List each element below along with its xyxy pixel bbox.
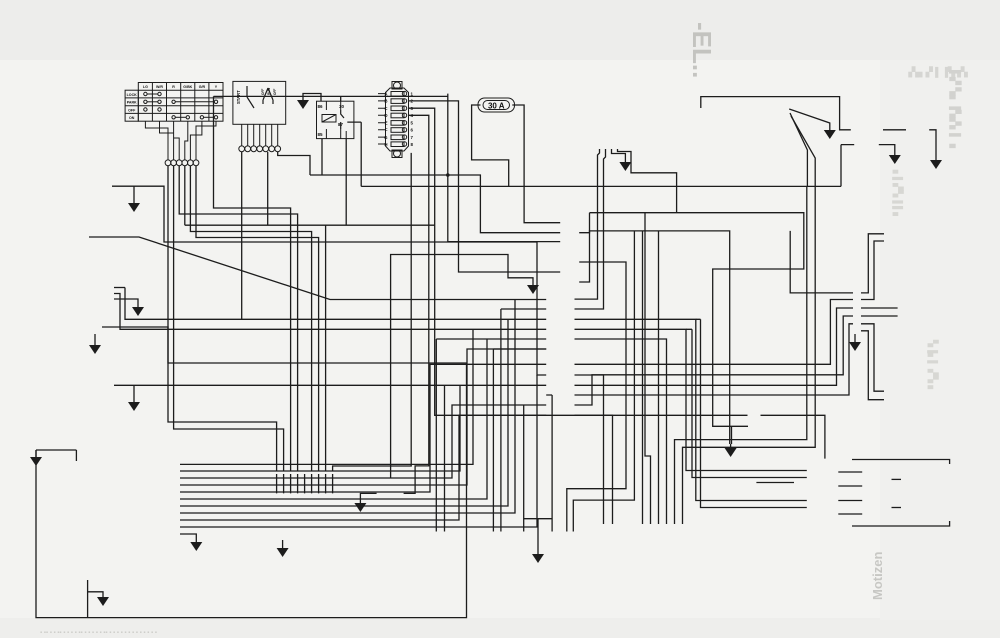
svg-text:▚▐▖▌ ▞▚ ▖: ▚▐▖▌ ▞▚ ▖ — [927, 339, 939, 392]
wire tail pin2 right — [861, 241, 884, 300]
ground tank — [619, 158, 631, 171]
wire Y loop gnd — [35, 450, 37, 453]
wire battery minus diag2 — [790, 113, 807, 186]
wire y230.9 long — [579, 231, 730, 444]
wire reg pin6 riser — [642, 231, 644, 524]
wire relay BN down — [345, 139, 347, 226]
ground solenoid — [889, 151, 901, 164]
wire key t1 — [168, 166, 277, 471]
svg-text:R: R — [172, 85, 175, 89]
wire tank gnd — [612, 149, 626, 158]
wire headlamp V — [114, 294, 546, 330]
svg-text:30: 30 — [339, 104, 345, 109]
svg-text:87: 87 — [338, 122, 344, 127]
svg-text:OFF: OFF — [128, 108, 136, 112]
fuse 25 — [478, 98, 515, 112]
wire solenoid to M — [883, 129, 906, 131]
wire gen loop to plugs top — [852, 460, 950, 465]
wire cluster t4 — [180, 349, 546, 485]
wire tail pin1 right to 34 — [861, 234, 884, 293]
svg-text:PARK: PARK — [127, 101, 137, 105]
ground relay86 — [297, 96, 309, 109]
wire 30pin4 LB — [404, 115, 429, 493]
wire cluster t9 — [180, 415, 546, 520]
wire strip1B W/G right — [575, 300, 854, 365]
wire key t5 — [190, 166, 311, 471]
wire key t4 — [184, 166, 186, 225]
key contacts — [144, 92, 218, 119]
wire bulb2 gnd — [133, 186, 135, 199]
wire 30 B/BK down — [333, 153, 412, 471]
key table to terminals wires — [145, 121, 216, 160]
wire A conn to loop — [761, 415, 825, 458]
wire cluster t6 — [180, 339, 487, 499]
wire bulb3 V/BK — [114, 384, 546, 386]
8 pin rows — [391, 91, 407, 146]
wire coil27 tip — [892, 507, 902, 509]
ground speedo — [97, 593, 109, 606]
ground bulb3 — [128, 398, 140, 411]
svg-text:OFF: OFF — [273, 89, 277, 95]
wire bulb14 L — [493, 349, 546, 532]
wire relay30 pin stub — [340, 96, 342, 101]
wire battery minus diag3 — [683, 116, 816, 524]
svg-text:LOCK: LOCK — [127, 93, 138, 97]
svg-text:LG: LG — [143, 85, 148, 89]
wire 30pin3 BN — [408, 108, 748, 415]
wire strip2D to 23b — [575, 319, 807, 500]
wire solenoid coil drop — [841, 145, 854, 187]
svg-text:W/R: W/R — [156, 85, 163, 89]
wire horn Y 1 — [575, 375, 604, 524]
wire y339 strip2E left — [436, 338, 546, 340]
wire cluster t10 — [180, 375, 537, 527]
wire strip2C to 23a — [575, 329, 807, 470]
wire strip4A right riser — [579, 213, 589, 233]
wire bulb14 R — [501, 309, 546, 532]
wire tail pin6 to 35 — [861, 331, 884, 400]
wire bulb12 L riser — [435, 339, 437, 532]
wire cluster gnd — [180, 534, 196, 538]
wire cluster t3 — [180, 405, 546, 478]
wire cluster t5 — [180, 364, 546, 492]
wire BK y212 — [590, 213, 804, 427]
wire headlamp gnd — [114, 299, 138, 303]
wire tail pin4 right — [861, 315, 898, 317]
wire R main: battery+ to solenoid top — [701, 97, 851, 130]
wire main R/B y186 — [361, 185, 841, 187]
wire bulb2 W/G — [112, 186, 546, 375]
svg-text:▪ ▪▪ ▪ ▪ ▪▪ ▪ ▪ ▪ ▪ ▪▪ ▪ ▪ ▪ ▪: ▪ ▪▪ ▪ ▪ ▪▪ ▪ ▪ ▪ ▪ ▪▪ ▪ ▪ ▪ ▪ ▪ ▪▪ ▪ ▪ … — [40, 630, 157, 636]
wire cluster t1 — [180, 329, 473, 464]
wire M gnd — [929, 130, 936, 156]
node dot — [446, 173, 450, 177]
wire strip1E GR/R right — [575, 316, 854, 405]
wire relay 86 ground — [303, 94, 321, 102]
ground starter M — [930, 156, 942, 169]
wire horn Y 2 — [575, 415, 613, 524]
wire 30pin1 R down — [448, 94, 560, 242]
svg-text:Motizen: Motizen — [870, 552, 885, 600]
wire bulb15 — [546, 395, 552, 532]
ignition switch 10 box — [233, 81, 286, 145]
svg-text:F: F — [385, 128, 388, 133]
wire headlamp Y — [102, 327, 467, 363]
svg-text:85: 85 — [318, 132, 324, 137]
wire key t3 — [179, 166, 297, 471]
wire relay W/R — [321, 139, 323, 175]
wire strip1A W/BK right — [575, 308, 854, 385]
connector 30 body — [386, 82, 409, 158]
wire reg pin4 riser — [658, 231, 660, 524]
wire plus circle to loop — [756, 482, 794, 484]
ground switch11 — [277, 544, 289, 557]
wire key t6 — [196, 166, 319, 471]
wire switch10 BN — [267, 152, 269, 225]
svg-text:E: E — [385, 121, 388, 126]
wire BN y225 — [185, 224, 435, 226]
ground tail strip — [849, 338, 861, 351]
wire strip2E to reg pin3 — [575, 339, 667, 524]
wire flasher gnd — [360, 493, 376, 499]
wire cluster t8 — [180, 300, 515, 514]
svg-text:▌▞ ▚▖▐▚▞▖▌▗: ▌▞ ▚▖▐▚▞▖▌▗ — [948, 70, 962, 148]
wire tail pin3 right — [861, 307, 898, 309]
key switch 9 table — [125, 83, 223, 122]
wire R/BK switch10 t7 — [278, 152, 310, 175]
svg-text:G: G — [384, 135, 388, 140]
wire tank BN/V — [575, 149, 600, 299]
wire parking gnd — [94, 334, 96, 341]
wire cluster t2 — [180, 385, 460, 471]
wire relay R to main — [347, 122, 361, 186]
svg-text:START: START — [236, 90, 241, 104]
wire tach pin — [75, 450, 77, 461]
wire battery minus diag gnd — [789, 109, 830, 126]
svg-text:▗▚▖▞ ▌▐▚ ▞▖: ▗▚▖▞ ▌▐▚ ▞▖ — [905, 66, 971, 78]
wire conn4 W/BK — [89, 237, 546, 300]
wire fuse right R — [512, 105, 560, 223]
wire tank LB — [575, 149, 606, 309]
svg-text:86: 86 — [318, 104, 324, 109]
wire bulb16 — [523, 405, 525, 532]
wire tail gnd pin6 — [854, 334, 856, 338]
svg-text:B: B — [384, 99, 387, 104]
wire BK arrow drop — [731, 426, 733, 444]
wire y175 horiz — [310, 175, 560, 233]
wire solenoid right gnd — [879, 145, 895, 151]
wire key t2 — [174, 166, 284, 471]
wire switch11 pin8 — [325, 225, 327, 471]
svg-text:-EL..: -EL.. — [687, 22, 717, 78]
svg-text:H: H — [384, 142, 387, 147]
wire bulbs 16-15 gnd bar — [524, 519, 552, 550]
ground mid R/BK — [527, 281, 539, 294]
wire switch10 R/B — [242, 152, 547, 319]
ground flasher — [354, 499, 366, 512]
svg-text:OFF: OFF — [261, 89, 265, 95]
relay 19 — [317, 101, 354, 138]
wire tail Y pin1 — [790, 231, 853, 293]
ground battery minus — [824, 126, 836, 139]
svg-text:ON: ON — [129, 116, 135, 120]
wire headlamp Y/BK — [125, 288, 242, 320]
key terminals row — [165, 160, 199, 166]
svg-text:G/BK: G/BK — [183, 85, 192, 89]
wire 30pin2 R/BK — [408, 101, 560, 272]
ground bulb2 — [128, 199, 140, 212]
ground parking — [89, 341, 101, 354]
wire strip3A to bulb13L — [567, 262, 626, 532]
wire 23b to coil27 — [838, 501, 862, 515]
ground headlamp — [132, 303, 144, 316]
wire 23a to coil26 — [838, 472, 862, 486]
wire Y loop left — [36, 363, 467, 618]
wire fuse left R/BK — [472, 105, 509, 186]
wire switch11 pins drop — [277, 474, 333, 493]
wire speedo bottom — [88, 580, 103, 618]
ground tach loop — [30, 453, 42, 466]
wire tank R/BK — [618, 149, 677, 213]
wire gen loop to plugs bottom — [852, 521, 950, 526]
wire R key drop x213 — [214, 96, 291, 471]
wire flasher F — [391, 255, 533, 479]
svg-text:RUN: RUN — [267, 87, 271, 95]
wire reg pin2 — [675, 186, 807, 524]
wire R key feed y96 — [214, 95, 448, 97]
wire bulb13R — [573, 231, 634, 532]
wire tail pin5 to 35 — [861, 324, 884, 391]
svg-text:30 A: 30 A — [488, 101, 505, 110]
ground rear BK — [725, 444, 737, 457]
wire bulb12 R riser — [444, 385, 446, 531]
svg-text:G/R: G/R — [199, 85, 206, 89]
wire cluster t7 — [180, 319, 508, 506]
wire strip1F right — [575, 324, 854, 395]
ground cluster — [190, 538, 202, 551]
wire bulb3 gnd — [133, 385, 135, 398]
wire coil26 tip — [892, 478, 902, 480]
ground bulbs15-16 — [532, 550, 544, 563]
svg-text:▖▌▞▚▐ ▌▖: ▖▌▞▚▐ ▌▖ — [892, 169, 904, 219]
wire switch11 gnd — [282, 540, 284, 544]
svg-text:D: D — [384, 113, 387, 118]
wire reg pin5 feed — [645, 213, 651, 524]
